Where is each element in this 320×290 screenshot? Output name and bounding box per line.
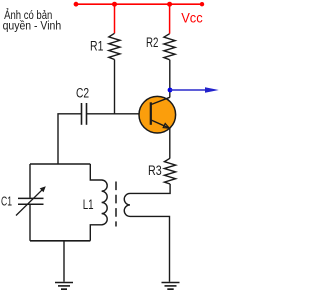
wire R1 to base node [114,60,116,115]
svg-text:L1: L1 [83,197,94,212]
resistor R2 [164,34,175,60]
tank loop bottom wire [30,240,90,242]
ground center [55,282,73,284]
Vcc rail (red) [76,3,202,5]
transformer core (dashed) [115,182,117,227]
wire C2 to base [87,113,151,115]
svg-text:C2: C2 [76,86,89,101]
node dot at R1 [112,2,117,7]
node dot right end [200,2,204,6]
wire Vcc to R1 (red) [114,4,116,33]
wire R3 to secondary top [130,184,170,193]
tank loop left wire lower [29,205,31,241]
svg-text:R2: R2 [146,35,158,50]
tank loop left wire upper [29,164,31,198]
inductor secondary [124,193,169,281]
wire to center ground [63,241,65,282]
wire C2 left lead [58,114,81,164]
output arrow (blue) [170,89,207,91]
node dot at R2 [167,2,172,7]
output node dot (blue) [168,88,173,93]
svg-text:R3: R3 [148,163,162,178]
svg-text:quyền - Vinh: quyền - Vinh [3,18,62,32]
wire Vcc to R2 (red) [169,4,171,34]
transistor Q1 [139,96,176,133]
wire R2 to collector [169,60,171,98]
svg-text:R1: R1 [90,39,103,54]
node dot left end [74,2,79,7]
ground right [162,282,180,284]
wire emitter to R3 [169,128,171,158]
resistor R3 [164,158,175,184]
svg-text:Vcc: Vcc [181,9,203,25]
svg-text:C1: C1 [1,193,12,208]
resistor R1 [109,33,120,59]
tank loop top wire [30,163,90,165]
